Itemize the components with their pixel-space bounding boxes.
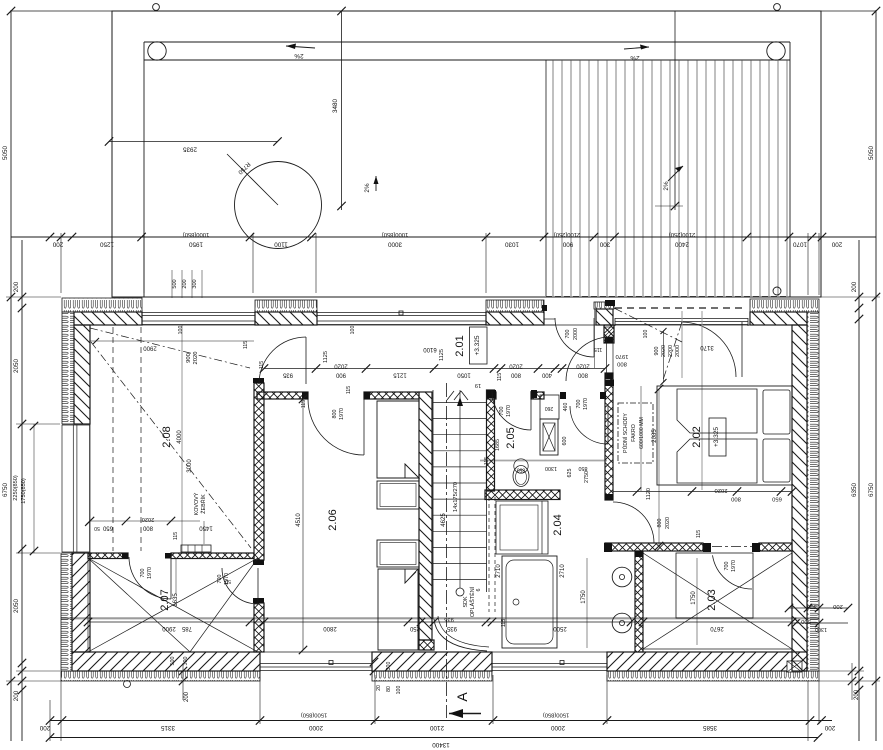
bottom dimension chain row (50, 720, 832, 722)
stairs SDK dashed enclosure (488, 497, 490, 612)
right top edge extension (821, 10, 876, 12)
svg-text:700: 700 (576, 400, 582, 409)
wall WC east seg (531, 392, 544, 399)
bed 1 in 2.06 (377, 401, 419, 478)
svg-text:20: 20 (376, 685, 382, 691)
svg-text:2800: 2800 (323, 625, 337, 631)
svg-text:300: 300 (192, 279, 198, 288)
svg-text:200: 200 (833, 603, 843, 609)
svg-text:460: 460 (563, 403, 569, 412)
roof gutter band top line (144, 41, 790, 43)
wall WC west (487, 390, 495, 491)
svg-text:1500(850): 1500(850) (543, 712, 569, 718)
instalation shaft (540, 395, 559, 419)
svg-text:1970: 1970 (583, 398, 589, 410)
svg-text:115: 115 (497, 373, 503, 382)
slope line 2900 in 2.08 (90, 340, 254, 342)
wall north of WC seg (487, 392, 496, 399)
wall 2.02 south seg2 (759, 543, 792, 551)
bottom total dimension 13400 (50, 737, 818, 739)
svg-text:1125: 1125 (323, 351, 329, 363)
svg-text:300: 300 (599, 241, 610, 248)
dashed slope diagonal 1 (90, 328, 250, 368)
stairs west wall (419, 392, 432, 640)
svg-text:200: 200 (52, 241, 63, 248)
interior face line west (89, 325, 91, 652)
north wall pillar 1 core (255, 312, 317, 325)
roof drain circle left (148, 42, 166, 60)
svg-text:2050: 2050 (13, 599, 20, 614)
south window glazing 2 (492, 663, 607, 665)
svg-text:2.03: 2.03 (706, 589, 718, 610)
svg-text:900: 900 (335, 372, 346, 378)
north-west wall block core (74, 312, 142, 325)
svg-text:2500: 2500 (553, 625, 567, 631)
svg-text:1970: 1970 (731, 560, 737, 572)
svg-text:2.06: 2.06 (327, 509, 339, 530)
svg-text:5050: 5050 (2, 146, 9, 161)
svg-text:800: 800 (657, 519, 663, 528)
bottom extension lines (60, 681, 62, 741)
svg-text:100: 100 (178, 326, 184, 335)
svg-text:850: 850 (517, 467, 526, 473)
roof dim vertical right (674, 11, 676, 210)
staircase treads (433, 402, 487, 404)
svg-text:2020: 2020 (715, 487, 728, 493)
svg-text:+3.325: +3.325 (713, 427, 720, 447)
svg-text:2900: 2900 (143, 345, 157, 351)
svg-text:935: 935 (282, 372, 293, 378)
door 2.05 (700/1970) (492, 391, 531, 430)
lintel marker box (787, 661, 802, 672)
double bed in 2.02 (657, 386, 792, 485)
floor drain circle (124, 681, 131, 688)
svg-text:1125: 1125 (439, 349, 445, 361)
section arrow A (449, 713, 481, 715)
south wall core east segment (607, 652, 807, 671)
svg-text:800: 800 (577, 372, 588, 378)
svg-text:1215: 1215 (393, 372, 407, 378)
svg-text:850: 850 (579, 465, 588, 471)
svg-text:3000: 3000 (388, 241, 403, 248)
wall 2.06/2.01 north seg1 (257, 392, 308, 399)
north wall pillar 2 core (486, 312, 544, 325)
metal ladder KOVOVY ZEBRIK (181, 545, 211, 552)
dim 2085 room 2.02 (658, 389, 660, 546)
svg-text:2.05: 2.05 (505, 427, 517, 448)
svg-text:600/1000 MM: 600/1000 MM (639, 417, 645, 449)
svg-text:2710: 2710 (560, 564, 566, 578)
svg-text:700: 700 (724, 562, 730, 571)
corridor circle fixture 2 (612, 613, 632, 633)
room level box 2.01 (470, 327, 488, 364)
svg-text:115: 115 (301, 400, 307, 408)
svg-text:1635: 1635 (173, 593, 179, 607)
svg-text:200: 200 (13, 690, 20, 701)
svg-text:2200: 2200 (668, 345, 674, 357)
west window glazing (61, 425, 63, 552)
north wall small pillar core (594, 302, 614, 309)
wall 2.07 north seg2 (171, 553, 254, 559)
roof gutter band bottom line (144, 59, 790, 61)
svg-text:2670: 2670 (710, 625, 724, 631)
south wall core mid segment (372, 652, 492, 671)
svg-text:900: 900 (562, 241, 573, 248)
south window glazing (260, 663, 372, 665)
svg-text:2085: 2085 (652, 429, 658, 443)
svg-text:260: 260 (545, 405, 554, 411)
top wall door swing (555, 318, 594, 357)
svg-text:2020: 2020 (576, 363, 590, 369)
east wall insulation (807, 312, 819, 671)
svg-text:1970: 1970 (506, 405, 512, 417)
svg-text:KOVOVÝ: KOVOVÝ (193, 492, 200, 515)
svg-text:6750: 6750 (2, 483, 9, 498)
wall 2.03 west (635, 551, 643, 652)
north wall pillar 1 insulation (255, 300, 317, 312)
svg-text:2000: 2000 (675, 345, 681, 357)
roof drain circle right (767, 42, 785, 60)
svg-text:200: 200 (831, 241, 842, 248)
svg-text:2%: 2% (294, 52, 304, 59)
svg-text:5050: 5050 (868, 146, 875, 161)
terrace hatch area (546, 60, 789, 296)
svg-text:1100: 1100 (274, 241, 288, 248)
svg-text:2750: 2750 (584, 471, 590, 483)
west wall upper core (74, 325, 90, 424)
svg-text:650: 650 (102, 525, 113, 531)
left outer dim line (10, 10, 12, 741)
svg-text:2100(250): 2100(250) (669, 231, 695, 237)
svg-text:200: 200 (851, 281, 858, 292)
svg-text:3170: 3170 (700, 344, 714, 350)
curved SDK wall (434, 619, 487, 651)
svg-text:2020: 2020 (665, 517, 671, 529)
svg-text:115: 115 (259, 361, 265, 369)
svg-text:625: 625 (567, 469, 573, 478)
svg-text:200: 200 (182, 279, 188, 288)
door 2.08 (935) (259, 337, 306, 384)
svg-text:700: 700 (217, 575, 223, 584)
svg-text:200: 200 (824, 724, 835, 731)
dashed slope diagonal 2 (91, 342, 251, 548)
svg-text:3315: 3315 (161, 724, 176, 731)
roof vent circle right top (774, 4, 781, 11)
north wall pillar 2 insulation (486, 300, 544, 312)
west wall lower insulation (61, 553, 72, 671)
roof band left edge (143, 42, 145, 297)
svg-text:700: 700 (499, 407, 505, 416)
svg-text:2.02: 2.02 (691, 426, 703, 447)
svg-text:115: 115 (243, 341, 249, 349)
svg-text:50: 50 (94, 525, 100, 531)
terrace slope arrow 2% (668, 166, 683, 181)
door 2.06 (800/1970) (308, 399, 364, 455)
left top edge extension (11, 10, 112, 12)
svg-text:2%: 2% (364, 183, 371, 193)
svg-text:14x175/270: 14x175/270 (453, 482, 459, 512)
svg-text:2.08: 2.08 (161, 426, 173, 447)
svg-text:700: 700 (140, 569, 146, 578)
svg-text:2.01: 2.01 (454, 335, 466, 356)
hall interior dimension chain (264, 368, 605, 370)
svg-text:1970: 1970 (616, 353, 629, 359)
svg-text:1250: 1250 (100, 241, 115, 248)
svg-text:3585: 3585 (703, 724, 718, 731)
roof slope arrow up-left 2% (375, 176, 377, 191)
svg-text:13400: 13400 (432, 741, 450, 748)
svg-text:1685: 1685 (495, 439, 501, 451)
room level box 2.02 (709, 418, 726, 456)
dim 4510 room 2.06 (302, 399, 304, 650)
wall 2.02 south seg1 (605, 543, 703, 551)
door 2.07 entry (700/1970) (129, 557, 171, 599)
terrace hatch left edge (545, 60, 547, 296)
roof slope arrow left 2% (286, 46, 315, 48)
bottom-right mini dim 200 (851, 663, 853, 700)
svg-text:2020: 2020 (193, 352, 199, 365)
svg-text:1970: 1970 (147, 567, 153, 579)
svg-text:200: 200 (854, 689, 860, 700)
right outer dim line (875, 10, 877, 741)
svg-text:6100: 6100 (423, 346, 437, 352)
corridor circle fixture 1 (612, 567, 632, 587)
room 2.07 cross bracing (88, 558, 258, 652)
svg-text:400: 400 (541, 372, 552, 378)
door 2.02 (800/2020) (613, 502, 654, 543)
svg-text:200: 200 (13, 281, 20, 292)
svg-text:6750: 6750 (868, 483, 875, 498)
wall 2.06 west upper (254, 383, 264, 560)
svg-text:1750(850): 1750(850) (21, 478, 27, 504)
svg-text:ŽEBŘÍK: ŽEBŘÍK (199, 494, 207, 514)
svg-text:2000: 2000 (551, 724, 566, 731)
svg-text:4510: 4510 (296, 513, 302, 527)
svg-text:200: 200 (184, 691, 190, 702)
west wall upper insulation (62, 312, 74, 424)
svg-text:2935: 2935 (183, 146, 198, 153)
svg-text:1750: 1750 (581, 590, 587, 604)
grey section trace (61, 617, 819, 619)
svg-text:935: 935 (446, 625, 457, 631)
svg-text:3000: 3000 (187, 459, 193, 473)
wall below WC (485, 490, 560, 500)
svg-text:4625: 4625 (441, 513, 447, 527)
svg-text:+3.325: +3.325 (474, 335, 481, 355)
svg-text:2020: 2020 (661, 345, 667, 357)
svg-text:1450: 1450 (199, 525, 213, 531)
bathroom dim 1750 (586, 558, 588, 648)
right mini chain 500 (792, 622, 848, 624)
svg-text:115: 115 (346, 386, 352, 394)
attic ladder FAKRO box (618, 403, 653, 463)
svg-text:PŮDNÍ SCHODY: PŮDNÍ SCHODY (622, 413, 629, 453)
svg-text:1030: 1030 (505, 241, 520, 248)
toilet (513, 466, 529, 487)
roof outline rectangle (112, 11, 821, 297)
top dimension chain (11, 236, 876, 238)
roof vent circle left top (153, 4, 160, 11)
svg-text:115: 115 (173, 532, 179, 540)
dimension 2935 (109, 141, 278, 143)
svg-text:6350: 6350 (851, 483, 858, 498)
svg-text:500: 500 (172, 279, 178, 288)
svg-text:1050: 1050 (457, 372, 471, 378)
svg-text:900: 900 (186, 353, 192, 363)
svg-text:2100: 2100 (430, 724, 445, 731)
dashed vertical line 2 in 2.08 (140, 327, 142, 551)
svg-text:OPLÁŠTĚNÍ: OPLÁŠTĚNÍ (468, 586, 476, 617)
roof band right edge (789, 42, 791, 297)
roof skylight circle (235, 162, 322, 249)
svg-text:50: 50 (225, 578, 231, 584)
svg-text:1000(850): 1000(850) (382, 231, 408, 237)
north window glazing mid (317, 312, 486, 314)
svg-text:1070: 1070 (793, 241, 808, 248)
svg-text:2000: 2000 (309, 724, 324, 731)
svg-text:2%: 2% (663, 181, 670, 191)
door 2.03 (700/1970) (713, 555, 753, 589)
svg-text:2020: 2020 (334, 363, 348, 369)
svg-text:19: 19 (475, 382, 481, 388)
svg-text:100: 100 (350, 326, 356, 335)
svg-text:1000(850): 1000(850) (183, 231, 209, 237)
wall 2.07 north seg1 (88, 553, 128, 559)
left wall horizontal extensions (6, 296, 61, 298)
skylight radius line R750 (227, 154, 278, 205)
svg-text:2400: 2400 (675, 241, 690, 248)
section cut line A-A (446, 383, 448, 718)
svg-text:3480: 3480 (332, 99, 339, 114)
lower interior dimension chain (88, 621, 792, 623)
dimension 3480 vertical (341, 11, 343, 210)
north-east wall block insulation (750, 299, 819, 312)
svg-text:800: 800 (142, 525, 153, 531)
svg-text:100: 100 (396, 686, 402, 695)
svg-text:2050: 2050 (13, 359, 20, 374)
svg-text:115: 115 (696, 530, 702, 538)
roof slope arrow right 2% (624, 47, 649, 49)
dashed lines in 2.02 (614, 308, 682, 342)
svg-text:800: 800 (332, 410, 338, 419)
svg-text:800: 800 (510, 372, 521, 378)
svg-text:1300: 1300 (545, 465, 557, 471)
north-west wall block insulation (62, 298, 142, 312)
svg-text:115: 115 (484, 457, 490, 465)
svg-text:600: 600 (562, 437, 568, 446)
west wall lower core (72, 553, 90, 652)
svg-text:FAKRO: FAKRO (631, 424, 637, 442)
terrace door swing (681, 322, 736, 377)
svg-text:250: 250 (409, 625, 420, 631)
bottom-left mini dim 200 (182, 663, 184, 700)
dashed vertical line 1 in 2.08 (112, 327, 114, 551)
north window glazing west (142, 312, 255, 314)
corridor west wall mid (605, 373, 613, 500)
svg-text:935: 935 (444, 616, 454, 622)
south wall insulation mid (372, 671, 492, 681)
interior face line south (90, 651, 792, 653)
grey level trace upper (480, 460, 607, 462)
svg-text:900: 900 (654, 347, 660, 356)
svg-text:200: 200 (39, 724, 50, 731)
svg-text:700: 700 (565, 330, 571, 339)
svg-text:2900: 2900 (162, 625, 176, 631)
svg-text:800: 800 (617, 361, 627, 367)
svg-text:6: 6 (476, 589, 482, 592)
terrace door slider track (615, 307, 747, 309)
svg-text:A: A (454, 692, 470, 702)
svg-text:785: 785 (181, 625, 192, 631)
dim chain 2.02 south (613, 491, 792, 493)
wall 2.06 west lower (254, 603, 264, 652)
right mini chain 300 200 (789, 607, 848, 609)
wall 2.06/2.01 north seg2 (364, 392, 419, 399)
corridor west wall upper (604, 325, 614, 343)
top step dims 500 200 300 (171, 270, 173, 298)
door corridor (800/1970) (566, 337, 610, 381)
interior face line east (791, 325, 793, 652)
svg-text:2250(850): 2250(850) (13, 475, 19, 501)
terrace door glazing (615, 318, 748, 320)
svg-text:2020: 2020 (509, 363, 523, 369)
door 2.04 (700/1970) (570, 406, 608, 444)
svg-text:115: 115 (594, 346, 603, 352)
svg-text:SDK: SDK (463, 596, 469, 607)
room 2.03 cross bracing (643, 553, 792, 649)
interior face line north (90, 324, 792, 326)
dim chain 2.08 mid (90, 520, 200, 522)
svg-text:80: 80 (386, 686, 392, 692)
svg-text:1750: 1750 (691, 591, 697, 605)
svg-text:4000: 4000 (177, 430, 183, 444)
svg-text:2100(250): 2100(250) (554, 231, 580, 237)
svg-text:100: 100 (643, 330, 649, 339)
south wall insulation east (607, 671, 819, 681)
svg-text:1500(850): 1500(850) (301, 712, 327, 718)
svg-text:2.04: 2.04 (552, 514, 564, 535)
svg-text:2710: 2710 (496, 564, 502, 578)
svg-text:2020: 2020 (142, 516, 154, 522)
svg-text:2000: 2000 (573, 328, 579, 340)
terrace drain circle (773, 287, 781, 295)
left inner dim line (21, 240, 23, 741)
south wall core west segment (72, 652, 260, 671)
stairs chevron marks (454, 391, 461, 400)
right inner dim line (858, 240, 860, 741)
door 2.07/hall (700/1970) (222, 568, 258, 604)
svg-text:1970: 1970 (339, 408, 345, 420)
svg-text:1120: 1120 (646, 488, 652, 500)
bed 2 in 2.06 (377, 540, 419, 567)
east wall core (792, 325, 807, 671)
bathtub (502, 556, 557, 648)
svg-text:800: 800 (731, 496, 741, 502)
washbasin counter (496, 501, 548, 554)
dim 1635 room 2.07 (175, 558, 177, 594)
svg-text:300: 300 (386, 662, 392, 671)
north-east wall block core (750, 312, 807, 325)
extension lines top wall to chain (60, 233, 62, 293)
south wall insulation west (61, 671, 260, 681)
svg-text:2%: 2% (630, 54, 640, 61)
svg-text:650: 650 (772, 496, 782, 502)
svg-text:115: 115 (501, 619, 507, 628)
svg-text:2.07: 2.07 (159, 589, 171, 610)
svg-text:1950: 1950 (189, 241, 204, 248)
door jamb posts (605, 380, 614, 387)
right wall horizontal extensions (819, 296, 880, 298)
